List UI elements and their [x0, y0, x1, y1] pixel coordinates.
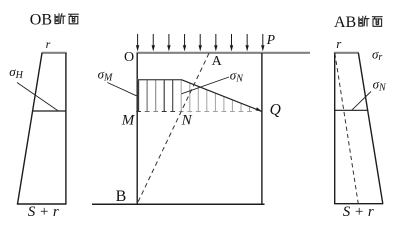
svg-text:S + r: S + r: [28, 204, 59, 220]
AB trapezoid top edge (gray): [334, 52, 359, 54]
hatch lines gray (right of bend): [179, 80, 252, 112]
svg-text:σH: σH: [9, 64, 23, 81]
svg-text:r: r: [336, 36, 342, 51]
top surface gray line: [137, 52, 311, 54]
dashed line B to A: [137, 53, 209, 203]
svg-text:Q: Q: [270, 102, 281, 119]
AB section title glyph 断: [358, 16, 369, 27]
svg-text:M: M: [121, 113, 136, 129]
hatch lines dark (left of bend): [136, 80, 175, 112]
AB divider line: [335, 109, 368, 111]
sigma_N middle leader line: [182, 77, 230, 94]
profile arrowhead at Q: [256, 107, 262, 111]
svg-text:r: r: [46, 37, 51, 51]
stress profile horizontal segment: [137, 79, 181, 81]
OB section title glyph 面: [68, 14, 79, 24]
distributed load arrows: [136, 34, 265, 51]
svg-text:P: P: [266, 32, 275, 47]
AB trapezoid outline: [334, 53, 383, 204]
sigma_M leader line: [107, 83, 136, 96]
sigma_N right leader line: [352, 92, 371, 111]
svg-text:σr: σr: [372, 47, 382, 64]
svg-text:AB: AB: [334, 14, 356, 31]
main rectangle bottom edge: [92, 203, 265, 205]
svg-text:S + r: S + r: [343, 204, 374, 220]
svg-text:OB: OB: [30, 12, 52, 29]
main rectangle left edge: [136, 53, 138, 204]
svg-text:N: N: [181, 113, 193, 129]
svg-text:σM: σM: [98, 67, 113, 84]
sigma_H leader line: [17, 83, 58, 111]
main rectangle right edge: [261, 53, 263, 204]
svg-text:σN: σN: [373, 77, 387, 94]
svg-text:A: A: [212, 54, 223, 69]
stress profile sloping segment: [181, 80, 261, 112]
svg-text:B: B: [116, 188, 127, 205]
svg-text:σN: σN: [230, 68, 244, 85]
svg-text:O: O: [124, 50, 134, 65]
OB divider line: [33, 110, 66, 112]
OB trapezoid top edge (gray): [41, 52, 67, 54]
OB section title glyph 断: [55, 13, 66, 24]
AB dashed line: [335, 54, 358, 204]
AB section title glyph 面: [372, 17, 383, 27]
OB trapezoid outline: [17, 53, 67, 204]
